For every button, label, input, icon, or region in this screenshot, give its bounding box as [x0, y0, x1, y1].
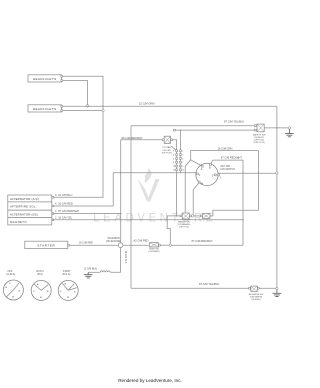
GRN fan to A pin and brake — [185, 151, 191, 214]
vertical from wire2 to connector right column — [179, 130, 181, 150]
PTO label — [162, 147, 172, 154]
connector pin squares — [176, 150, 182, 171]
junction dot — [102, 106, 103, 107]
reverse switch on bottom wire — [249, 287, 251, 289]
svg-text:2: 2 — [55, 215, 57, 219]
svg-text:IGN SWITCH: IGN SWITCH — [221, 168, 236, 171]
node circle after brake — [191, 215, 193, 217]
node circle bottom right — [276, 288, 278, 290]
headlight box1 pin bottom — [61, 80, 63, 82]
big rectangle left edge — [130, 126, 132, 289]
key position dial START — [58, 280, 78, 300]
afterfire box — [8, 202, 52, 210]
wire2 to safety switch (second top wire) — [174, 129, 176, 131]
solenoid down to ground — [110, 248, 120, 273]
svg-text:1: 1 — [220, 177, 222, 180]
svg-text:86 C/M RED/WHT: 86 C/M RED/WHT — [122, 136, 144, 140]
svg-text:M: M — [40, 297, 42, 299]
headlight box2 pin bottom — [61, 110, 63, 112]
svg-text:S: S — [33, 291, 35, 293]
safety switch left pins — [254, 125, 256, 127]
svg-text:A2 C/M RED: A2 C/M RED — [134, 239, 149, 243]
wire afterfire to key switch row — [53, 173, 114, 206]
svg-text:ALTERNATOR (DC): ALTERNATOR (DC) — [10, 213, 38, 217]
wire key switch G to right edge — [218, 172, 275, 174]
big rectangle bottom wire 87 C/M YEL/BLK — [131, 287, 276, 289]
svg-text:87 C/M YEL/BLK: 87 C/M YEL/BLK — [199, 282, 219, 286]
alternator pins — [52, 196, 54, 220]
svg-text:(G-M-A): (G-M-A) — [7, 273, 16, 276]
safety switch label — [253, 133, 267, 144]
16 C/M GRN wire — [191, 150, 259, 152]
svg-text:S: S — [9, 283, 11, 285]
connector diagonal top — [171, 146, 176, 150]
alternator DC wire — [53, 213, 121, 215]
alternator DC box — [8, 210, 52, 217]
connector bottom vertical — [176, 173, 178, 216]
svg-text:6: 6 — [173, 158, 174, 160]
svg-text:BRAKE SW: BRAKE SW — [178, 220, 190, 223]
wire 22 C/M GRN — [63, 105, 277, 107]
svg-text:10: 10 — [173, 166, 175, 168]
svg-text:HEADLIGHTS: HEADLIGHTS — [33, 107, 57, 111]
svg-text:LEADVENTURE: LEADVENTURE — [93, 213, 217, 225]
magneto wire 16 C/M YEL — [53, 219, 243, 221]
svg-text:(ON SEAT): (ON SEAT) — [149, 250, 160, 253]
brake switch box — [182, 213, 189, 219]
node circle end of stub — [102, 109, 104, 111]
coil / resistor — [100, 271, 110, 272]
svg-text:16 C/M BLK: 16 C/M BLK — [124, 251, 127, 264]
ground top right — [285, 129, 294, 137]
svg-text:STARTER: STARTER — [37, 243, 55, 247]
magneto box — [8, 218, 52, 225]
wire headlight1 bottom — [63, 81, 88, 105]
svg-text:AFTERFIRE SOL.: AFTERFIRE SOL. — [10, 205, 37, 209]
svg-text:2: 2 — [173, 151, 174, 153]
starter box — [25, 241, 68, 248]
node circle on green wire — [86, 105, 88, 107]
svg-text:A: A — [6, 286, 8, 289]
svg-text:(ON ENGINE): (ON ENGINE) — [106, 240, 121, 243]
alternator wire labels — [55, 193, 80, 220]
svg-text:HEADLIGHTS: HEADLIGHTS — [33, 77, 57, 81]
wire headlight2 bottom stub — [63, 110, 102, 112]
connector columns — [177, 150, 181, 173]
interlock box 15-4 — [202, 213, 210, 218]
M pin wire down to brake node — [193, 183, 199, 215]
svg-text:16 C/M RED: 16 C/M RED — [58, 202, 73, 206]
svg-text:(B-S-A): (B-S-A) — [62, 273, 70, 276]
wire seat to node — [160, 244, 169, 246]
right edge vertical wire — [276, 106, 278, 289]
svg-text:M: M — [12, 297, 14, 299]
svg-text:4: 4 — [55, 202, 57, 206]
big rectangle top edge — [131, 125, 254, 127]
headlight box 1 — [28, 75, 62, 82]
svg-text:16 C/M YEL: 16 C/M YEL — [58, 215, 72, 219]
key position dial OFF — [3, 280, 23, 300]
svg-text:22 C/M BLU: 22 C/M BLU — [58, 193, 72, 197]
key switch circle — [196, 163, 218, 185]
87 C/M RED/WHT wire from B pin — [211, 160, 243, 245]
svg-text:9: 9 — [182, 166, 183, 168]
svg-text:8: 8 — [173, 162, 174, 164]
headlight box 2 — [28, 105, 62, 112]
svg-text:4: 4 — [55, 209, 57, 213]
brake switch chain: node to brake box — [167, 216, 180, 244]
GRN down to interlock chain — [210, 151, 258, 216]
starter wire — [69, 244, 148, 246]
long wire at y=173 to key switch L — [113, 172, 195, 174]
svg-text:(UP POS): (UP POS) — [179, 227, 189, 229]
svg-text:(B-A): (B-A) — [37, 273, 43, 276]
connector pin digits — [173, 151, 184, 172]
wire node to key switch vertical — [172, 244, 244, 246]
PTO switch box — [164, 136, 170, 143]
wire headlight1 top to alternator AC (22 C/M BLU vertical) — [53, 76, 103, 197]
svg-text:A: A — [65, 283, 67, 286]
svg-text:(IN FWD): (IN FWD) — [251, 299, 261, 301]
svg-text:87 C/M RED/WHT: 87 C/M RED/WHT — [58, 209, 80, 213]
alternator AC box — [8, 195, 52, 202]
svg-text:16 C/M GRN: 16 C/M GRN — [218, 146, 233, 150]
seat switch box — [150, 243, 159, 247]
key position dial RUN 2 — [31, 280, 51, 300]
svg-text:1: 1 — [182, 151, 183, 153]
svg-text:3: 3 — [182, 155, 183, 157]
svg-text:G: G — [212, 175, 214, 178]
headlight box2 pin top — [61, 105, 63, 107]
ground left — [84, 272, 93, 278]
wire from safety switch to ground — [264, 127, 288, 129]
svg-text:7: 7 — [182, 162, 183, 164]
svg-text:Rendered by LeadVenture, Inc.: Rendered by LeadVenture, Inc. — [118, 378, 182, 383]
safety switch box top-right — [257, 124, 264, 132]
svg-text:S: S — [60, 291, 62, 293]
svg-text:11: 11 — [182, 170, 184, 172]
wire coil to ground — [88, 271, 100, 273]
svg-text:(OFF POS): (OFF POS) — [253, 142, 264, 144]
watermark logo — [138, 168, 160, 202]
svg-text:5: 5 — [182, 158, 183, 160]
junction dot afterfire/PTO — [120, 172, 121, 173]
key switch pin letters — [199, 167, 222, 186]
svg-text:(3 C/M BLK): (3 C/M BLK) — [84, 268, 97, 271]
svg-text:22 C/M GRN: 22 C/M GRN — [139, 102, 154, 106]
wire PTO right to connector — [173, 140, 177, 150]
ground bottom right — [273, 290, 282, 297]
svg-text:87 C/M YEL/BLK: 87 C/M YEL/BLK — [224, 119, 244, 123]
vertical PTO feed to solenoid — [120, 140, 122, 243]
svg-text:B: B — [74, 292, 76, 294]
brake label — [178, 220, 191, 228]
svg-text:B: B — [19, 291, 21, 293]
node circle — [169, 244, 171, 246]
svg-text:A: A — [37, 283, 39, 286]
svg-text:4: 4 — [55, 193, 57, 197]
PTO switch wire left — [121, 139, 163, 141]
node circle top right — [288, 127, 290, 129]
svg-text:(UP POS): (UP POS) — [162, 152, 172, 154]
svg-text:12: 12 — [173, 170, 175, 172]
svg-text:MAGNETO: MAGNETO — [10, 220, 27, 224]
solenoid node — [118, 243, 123, 248]
wire circle to interlock — [194, 215, 201, 217]
svg-text:4: 4 — [173, 155, 174, 157]
svg-text:B: B — [47, 291, 49, 293]
node circle right edge — [276, 172, 278, 174]
headlight box1 pin top — [61, 75, 63, 77]
svg-text:(ON BRAKE): (ON BRAKE) — [178, 223, 191, 226]
svg-text:M: M — [201, 182, 203, 185]
svg-text:87 C/M RED/WHT: 87 C/M RED/WHT — [221, 156, 243, 160]
svg-text:ALTERNATOR (A/C): ALTERNATOR (A/C) — [10, 197, 39, 201]
key switch pins — [196, 164, 219, 183]
svg-text:SAFETY SW: SAFETY SW — [253, 133, 267, 136]
svg-text:16 C/M RED: 16 C/M RED — [79, 240, 94, 244]
svg-text:87 C/M RED/WHT: 87 C/M RED/WHT — [192, 239, 214, 243]
svg-text:M: M — [67, 297, 69, 299]
